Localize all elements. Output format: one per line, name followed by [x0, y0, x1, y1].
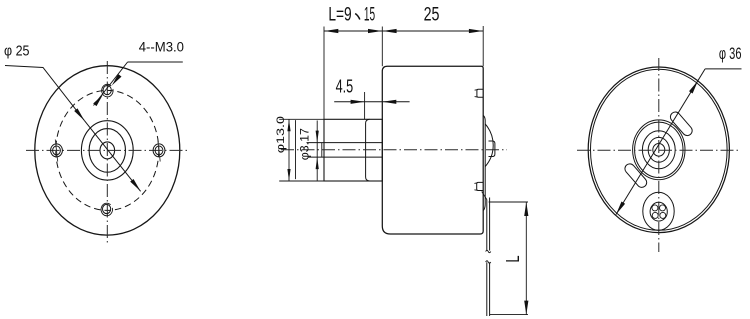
svg-text:φ13.0: φ13.0 — [275, 116, 287, 153]
middle view: shaft bottom line — [308, 156, 382, 158]
middle view: shaft end — [321, 143, 323, 158]
dim phi13 ext lines — [279, 118, 324, 120]
rear bearing dome — [485, 124, 493, 167]
svg-text:15: 15 — [364, 5, 375, 26]
left view: boss middle circle — [89, 129, 125, 173]
left view: bolt circle (dashed) — [56, 90, 159, 210]
middle view: front plate line — [366, 119, 370, 181]
right view: lower slot — [623, 162, 649, 190]
right view: inner shell line — [591, 69, 728, 230]
extension line at motor face — [381, 27, 383, 67]
wire break marks — [486, 250, 491, 252]
middle view: motor body — [382, 66, 483, 234]
dim L — [489, 201, 528, 203]
bolt circle diameter line — [85, 121, 141, 192]
svg-text:φ 25: φ 25 — [4, 44, 30, 60]
left view: vertical centerline — [106, 61, 108, 243]
dim 4.5 — [334, 101, 409, 103]
left view: flange outline — [35, 66, 180, 235]
right view: connector pins — [652, 205, 658, 211]
middle view: gearbox housing — [324, 119, 382, 181]
extension line at motor rear — [482, 26, 484, 66]
svg-text:25: 25 — [424, 5, 440, 26]
dim phi3.17 line — [316, 121, 318, 181]
svg-text:L=9: L=9 — [328, 5, 351, 26]
svg-text:4--M3.0: 4--M3.0 — [139, 40, 184, 55]
right view: upper slot — [668, 110, 694, 138]
upper terminal tab — [477, 89, 483, 97]
rear bearing nub — [489, 141, 495, 157]
left view: top M3 hole — [103, 86, 111, 95]
rear end cap — [483, 116, 485, 211]
right view: vertical centerline — [658, 58, 660, 252]
lower terminal tab — [477, 182, 484, 190]
leader phi25 — [5, 66, 85, 121]
left view: left side hole — [51, 144, 63, 157]
lead wires — [486, 200, 488, 251]
dim phi13 line — [288, 119, 290, 181]
svg-text:φ3.17: φ3.17 — [298, 128, 312, 160]
left view: bottom M3 hole — [103, 204, 111, 213]
leader 4--M3.0 — [128, 61, 183, 63]
left view: boss outer circle — [81, 121, 133, 180]
vertical line beside phi3.17 text — [295, 120, 297, 179]
middle view: shaft top line — [307, 142, 383, 144]
dim L=9,15 / 25: dimension line with arrows — [324, 30, 483, 32]
right view: connector outer — [643, 192, 674, 230]
right view: outer shell — [588, 67, 729, 233]
right view: boss rings — [633, 120, 685, 180]
right view: horizontal centerline — [577, 149, 741, 151]
right view: connector inner — [650, 202, 667, 221]
svg-text:φ 36: φ 36 — [719, 44, 742, 63]
left view: right side hole — [153, 144, 165, 157]
left view: shaft hole circle — [100, 142, 115, 159]
leader phi36 — [705, 68, 741, 70]
left view: horizontal centerline — [26, 149, 188, 151]
svg-text:L: L — [503, 256, 523, 263]
svg-text:4.5: 4.5 — [336, 77, 354, 97]
middle view: axis centerline — [281, 149, 507, 151]
extension line at gearbox front — [323, 27, 325, 120]
